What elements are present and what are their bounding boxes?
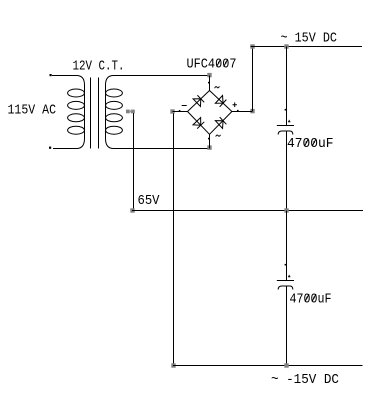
- wire secondary top lead to bridge: [114, 75, 210, 77]
- transformer T1 primary loop 1: [68, 89, 85, 97]
- wire bridge left stub: [173, 111, 188, 113]
- capacitor C2 polarity + mark: [288, 275, 290, 277]
- slash of zero 2 in UFC4007: [224, 59, 228, 66]
- svg-text:12V C.T.: 12V C.T.: [73, 58, 125, 74]
- node bridge bottom (AC input): [207, 145, 211, 149]
- wire center tap down: [133, 113, 135, 211]
- wire C1 bottom lead: [286, 131, 288, 211]
- transformer T1 core line right: [98, 78, 100, 149]
- svg-text:65V: 65V: [138, 193, 161, 209]
- diode D2 top-right (anode at top AC, cathode to plus): [215, 95, 226, 107]
- node bridge top (AC input): [207, 73, 211, 77]
- pin dot top stub: [208, 82, 210, 84]
- node bridge left (minus): [170, 109, 174, 113]
- slash of zero 1 in 4700uF C2: [305, 294, 309, 301]
- wire bridge bottom stub: [209, 134, 211, 148]
- capacitor C1 curved plate: [278, 131, 293, 135]
- svg-text:4700uF: 4700uF: [290, 292, 332, 308]
- slash of zero 1 in UFC4007: [217, 59, 221, 66]
- transformer T1 primary winding outline: [52, 76, 85, 149]
- label ~ bottom AC of bridge: [216, 135, 221, 137]
- slash of zero 1 in 4700uF C1: [304, 139, 308, 146]
- pin dot C1 top lead: [285, 109, 287, 111]
- pin dot left stub: [179, 110, 181, 112]
- bridge diamond side top-right: [210, 91, 232, 112]
- transformer T1 primary loop 4: [68, 126, 85, 134]
- transformer T1 primary terminal dot bottom: [49, 147, 51, 149]
- wire bridge top stub: [209, 76, 211, 91]
- svg-text:UFC4007: UFC4007: [187, 57, 237, 73]
- capacitor C2 curved plate: [278, 286, 293, 290]
- node +15V rail at C1: [284, 44, 288, 48]
- bridge diamond side bottom-left: [188, 112, 210, 135]
- label - (minus): [182, 105, 187, 107]
- svg-text:115V AC: 115V AC: [8, 103, 57, 119]
- capacitor C1 polarity + mark: [288, 120, 290, 122]
- wire 65V rail: [132, 210, 363, 212]
- node -15V rail left corner: [171, 363, 175, 367]
- node 65V rail at C2: [284, 208, 288, 212]
- pin dot right stub: [237, 110, 239, 112]
- capacitor C2 top plate: [277, 280, 294, 282]
- transformer T1 secondary loop 2: [106, 101, 123, 109]
- transformer T1 primary terminal dot top: [50, 74, 52, 76]
- diode D1 top-left (anode at minus, cathode to top AC): [193, 95, 204, 107]
- wire bridge right stub: [232, 111, 253, 113]
- diode D3 bottom-left (anode at minus, cathode to bottom AC): [193, 117, 205, 128]
- bridge diamond side bottom-right: [210, 112, 232, 135]
- slash of zero 2 in 4700uF C1: [312, 139, 316, 146]
- capacitor C1 top plate: [277, 125, 294, 127]
- bridge diamond side top-left: [188, 91, 210, 112]
- transformer T1 secondary loop 4: [106, 126, 123, 134]
- wire secondary bottom lead to bridge: [114, 148, 210, 150]
- node -15V rail at C2: [284, 363, 288, 367]
- transformer T1 secondary loop 1: [106, 89, 123, 97]
- transformer T1 core line left: [90, 78, 92, 149]
- transformer T1 primary loop 2: [68, 101, 85, 109]
- node bridge right wire corner (plus): [250, 109, 254, 113]
- node 65V rail left end: [130, 208, 134, 212]
- transformer T1 primary loop 3: [68, 114, 85, 122]
- pin dot C2 top lead: [285, 264, 287, 266]
- center tap terminal marker: [126, 110, 130, 114]
- wire C2 top lead: [286, 211, 288, 281]
- svg-text:4700uF: 4700uF: [287, 136, 334, 152]
- wire +15V DC rail: [251, 46, 363, 48]
- transformer T1 secondary winding outline: [106, 76, 114, 149]
- wire C2 bottom lead: [286, 286, 288, 366]
- transformer T1 secondary loop 3: [106, 114, 123, 122]
- slash of zero 2 in 4700uF C2: [312, 294, 316, 301]
- node +15V rail left corner: [250, 44, 254, 48]
- wire C1 top lead: [286, 47, 288, 126]
- label + (plus): [233, 102, 237, 107]
- label ~ top AC of bridge: [215, 86, 220, 88]
- svg-text:~ 15V DC: ~ 15V DC: [281, 30, 338, 46]
- wire -15V DC rail: [173, 365, 363, 367]
- wire bridge plus up to +15V rail: [252, 47, 254, 112]
- diode D4 bottom-right (anode at bottom AC, cathode to plus): [215, 117, 226, 129]
- wire bridge minus down to -15V rail: [173, 114, 175, 366]
- svg-text:~ -15V DC: ~ -15V DC: [271, 372, 339, 388]
- pin dot bottom stub: [208, 138, 210, 140]
